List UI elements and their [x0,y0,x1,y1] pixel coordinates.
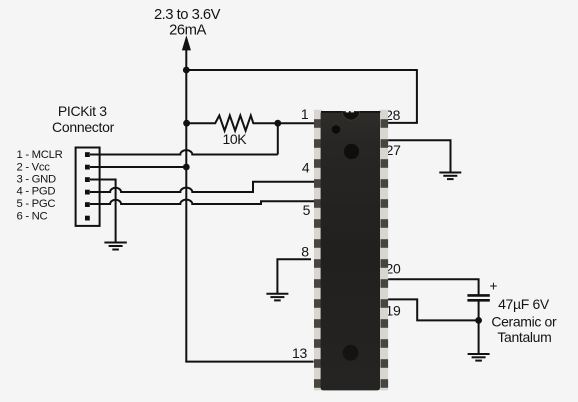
svg-text:4 - PGD: 4 - PGD [17,186,56,198]
node junction Vcc [183,164,190,171]
svg-text:5 - PGC: 5 - PGC [17,198,56,210]
svg-text:Connector: Connector [52,119,115,135]
IC U1 DIP-28 package [314,110,388,391]
IC pin1 dot [332,125,341,134]
wire MCLR branch vertical [277,123,279,154]
supply arrow [182,37,190,50]
connector pin squares [85,152,90,220]
svg-text:2 - Vcc: 2 - Vcc [17,161,51,173]
wire GND pin3 [90,180,116,243]
IC notch [342,112,359,121]
svg-text:1: 1 [301,106,309,122]
svg-text:8: 8 [301,243,309,259]
node junction at resistor right [274,120,281,127]
wire Vcc pin2 to rail [90,166,186,168]
wire capacitor bottom to ground [478,300,480,353]
IC notch rim highlights [346,110,349,113]
resistor R 10K [186,116,277,131]
ground symbol pin27 [439,173,461,180]
svg-text:3 - GND: 3 - GND [17,174,56,186]
node junction capacitor/pin19 [475,317,482,324]
IC body top edge [321,111,380,113]
svg-text:4: 4 [302,160,310,176]
svg-text:47µF 6V: 47µF 6V [498,296,550,312]
wire pin19 [384,299,479,320]
ground symbol connector [104,243,126,250]
wire MCLR horizontal with hop over rail [90,150,278,154]
IC lower mold dot [343,345,359,361]
connector pin labels [17,149,63,222]
IC left pin strip [314,110,323,391]
svg-text:5: 5 [303,202,311,218]
IC body [321,111,380,390]
ground symbol capacitor [468,354,490,361]
svg-text:6 - NC: 6 - NC [17,210,48,222]
wire top horizontal to pin28 drop [186,69,417,71]
IC left pin nubs [314,119,322,388]
capacitor value label [491,296,557,345]
svg-text:PICKit 3: PICKit 3 [58,103,107,119]
svg-text:10K: 10K [222,131,247,147]
IC upper mold dot [344,144,359,159]
node junction at resistor left [183,120,190,127]
IC right pin strip [380,110,389,391]
svg-text:2.3 to 3.6V: 2.3 to 3.6V [154,7,221,23]
wire pin20 to capacitor [384,279,479,294]
node junction top [183,67,190,74]
capacitor C1 plates [467,295,489,300]
svg-text:13: 13 [292,345,307,361]
svg-text:+: + [490,279,498,294]
wire Vcc rail vertical [185,50,187,362]
wire resistor to IC pin1 [278,122,316,124]
wire PGD pin4 with hops [90,182,316,192]
wire pin27 to ground [385,140,451,172]
svg-text:26mA: 26mA [169,23,206,39]
wire pin8 to ground [277,259,311,293]
connector title [52,103,115,135]
wire pin28 vertical drop [416,69,418,123]
svg-text:Tantalum: Tantalum [497,329,551,345]
svg-text:1 - MCLR: 1 - MCLR [17,149,63,161]
wire pin28 horizontal [385,122,418,124]
wire PGC pin5 with hops [90,200,316,204]
IC right pin nubs [381,119,389,388]
svg-text:Ceramic or: Ceramic or [491,313,557,329]
wire pin13 bottom [186,361,313,362]
supply label 2.3 to 3.6V 26mA [154,7,221,39]
connector body [76,148,100,226]
ground symbol pin8 [266,294,288,301]
